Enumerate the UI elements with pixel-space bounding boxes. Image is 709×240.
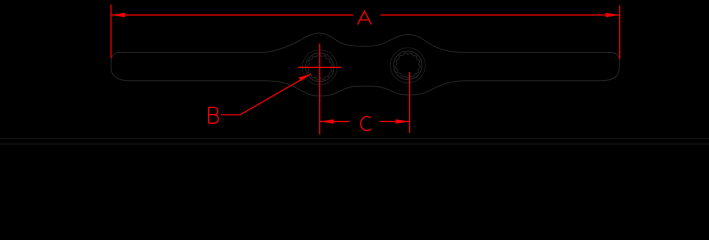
- dimension A line right segment: [380, 14, 619, 16]
- dimension A line left segment: [111, 14, 353, 16]
- leader arrowhead: [299, 74, 311, 81]
- left hole circle r14.3: [305, 53, 334, 82]
- left hole circle r17.5: [302, 50, 337, 85]
- dimension C line left segment: [320, 121, 350, 123]
- right hole circle r14.2: [394, 51, 422, 79]
- label A: [358, 11, 372, 25]
- part outline (rocker arm silhouette): [111, 33, 619, 96]
- dimension C arrow left: [320, 119, 334, 123]
- label B: [209, 107, 219, 123]
- dimension A extension line left: [110, 5, 112, 59]
- dimension A extension line right: [619, 6, 621, 60]
- dimension C extension line right: [409, 72, 411, 133]
- left hole center mark vertical / dimension C extension left: [319, 44, 321, 135]
- bottom screen divider line: [0, 138, 709, 140]
- left hole serrated ring: [307, 54, 333, 80]
- right hole circle r17.5: [390, 48, 425, 83]
- left hole center mark horizontal: [298, 66, 342, 68]
- dimension A arrow left: [112, 13, 126, 17]
- leader line from B to left hole: [221, 74, 311, 115]
- dimension C arrow right: [396, 119, 410, 123]
- bottom edge strip: [0, 143, 709, 145]
- right hole serrated ring: [395, 53, 421, 78]
- dimension C line right segment: [380, 121, 410, 123]
- label C: [361, 116, 372, 130]
- dimension A arrow right: [606, 13, 620, 17]
